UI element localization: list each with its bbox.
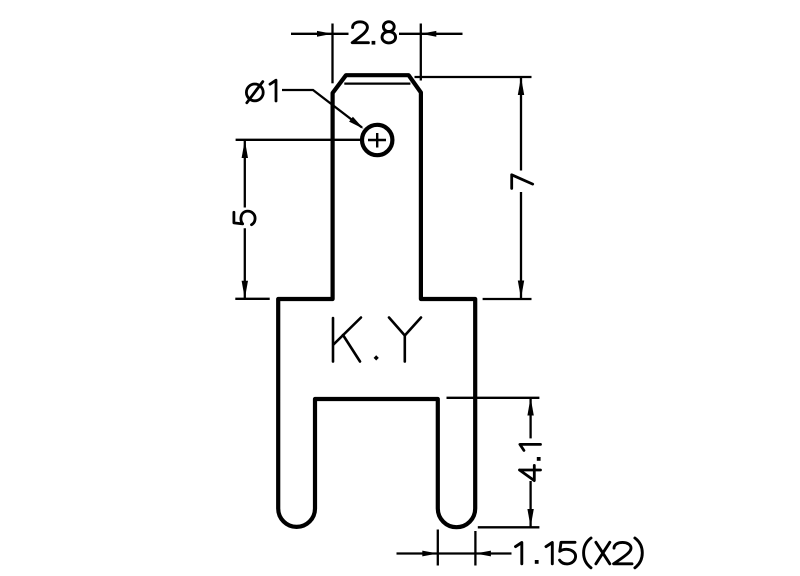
dim 4.1 bottom extension line bbox=[478, 526, 540, 528]
dim 1.15 extension line left bbox=[437, 530, 439, 566]
dim 2.8 extension line right bbox=[420, 24, 422, 81]
dim text 7 (rotated) bbox=[512, 175, 533, 189]
label ø1 leader arrow bbox=[349, 117, 364, 129]
dim 4.1 top extension line bbox=[447, 397, 540, 399]
dim 1.15 arrow right bbox=[475, 551, 491, 557]
dim 5 bottom extension line bbox=[235, 298, 269, 300]
dim 2.8 arrow left bbox=[317, 31, 333, 37]
dim 4.1 dimension line bbox=[529, 398, 531, 527]
dim 2.8 arrow right bbox=[421, 31, 437, 37]
dim 7 dimension line bbox=[520, 77, 522, 299]
hole centerline (extension for dim 5) bbox=[236, 139, 361, 141]
dim 2.8 extension line left bbox=[331, 24, 333, 84]
dim 7 bottom extension line bbox=[483, 298, 532, 300]
dim 5 arrow up bbox=[242, 140, 248, 158]
dim 7 arrow up bbox=[518, 77, 524, 95]
hole center cross bbox=[368, 133, 386, 148]
dim text 2.8 bbox=[352, 22, 395, 43]
marking text K.Y bbox=[333, 318, 421, 362]
dim text 4.1 (rotated) bbox=[520, 444, 541, 480]
dim 7 arrow down bbox=[518, 281, 524, 299]
dim 1.15 arrow left bbox=[422, 551, 438, 557]
label ø1 text bbox=[246, 80, 276, 103]
dim 2.8 dimension line bbox=[291, 33, 463, 35]
label ø1 leader line bbox=[282, 90, 362, 128]
dim text 1.15(X2) bbox=[516, 538, 643, 568]
dim text 5 (rotated) bbox=[234, 211, 255, 225]
dim 4.1 arrow up bbox=[527, 398, 533, 416]
dim 7 top extension line bbox=[415, 76, 532, 78]
dim 4.1 arrow down bbox=[527, 509, 533, 527]
marking text K.Y period bbox=[374, 355, 379, 360]
tab top inner edge line bbox=[344, 82, 410, 84]
dim 1.15 extension line right bbox=[474, 531, 476, 566]
dim 5 arrow down bbox=[242, 281, 248, 299]
hole circle bbox=[362, 125, 392, 155]
dim 1.15 dimension line bbox=[397, 552, 512, 554]
part outline (terminal body with tab, shoulders, two legs) bbox=[278, 75, 475, 527]
dim 5 dimension line bbox=[244, 140, 246, 299]
